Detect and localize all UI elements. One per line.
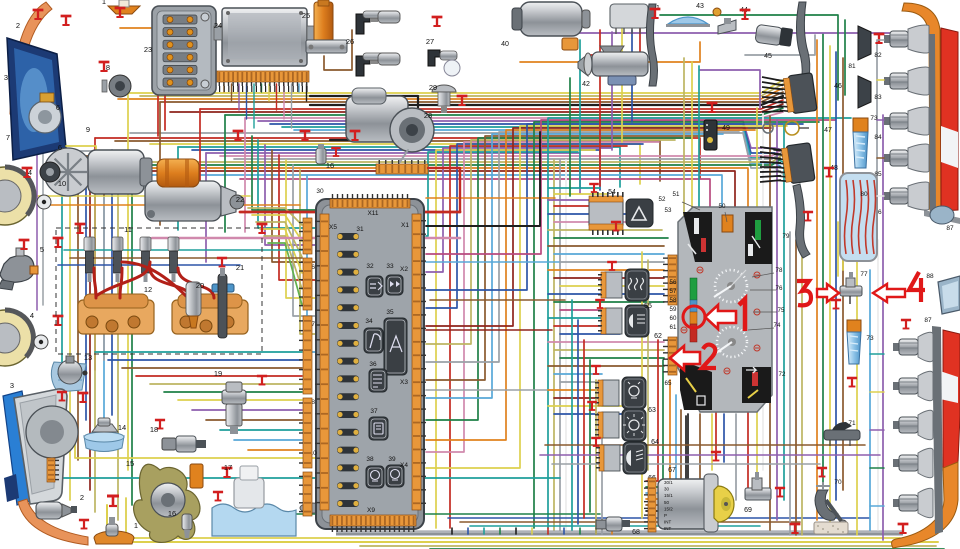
headlamp unit 3 (bottom-left) [3,389,78,505]
wire switch column vertical 5 [601,420,603,534]
svg-text:32: 32 [366,263,374,270]
ground gnd 16u [331,148,341,156]
side repeater 73 left lens [847,320,861,364]
tail lamp housing top-right red block [941,28,958,211]
wire main harness A9 [258,121,757,148]
starter 22 [145,159,244,221]
ground gnd near horn8 [99,62,110,71]
wire far-left vertical 2 [77,168,79,460]
wire left gray vertical [42,128,44,305]
svg-text:30: 30 [664,487,670,492]
wire bundle-to-panel rung 15 [554,301,664,303]
svg-text:6: 6 [58,143,62,152]
horn 4 upper [0,167,51,225]
wire left drop 8 [117,162,119,520]
wire central bundle v11 [426,130,755,440]
connector of unit 24 [217,71,309,86]
annotation digit 2 [702,345,716,368]
indicator bars in 53 [688,218,706,254]
svg-text:87: 87 [924,317,932,324]
wire main harness B8 [118,156,781,162]
ground gnd 21 [217,258,227,267]
svg-text:10: 10 [58,179,66,188]
wire far-left vertical 4 [94,184,96,512]
wire ignition yellow feeder [641,252,643,518]
bulb 82 [884,25,929,53]
svg-text:71: 71 [848,420,856,427]
wire ECU drop 11 [306,84,308,101]
light switch 64 connector [595,412,619,438]
instrument cluster 51 panel [678,207,772,412]
wire bundle-to-panel rung 13 [560,285,664,287]
wire central bundle v12 [426,128,771,326]
wire ECU drop 5 [261,84,263,92]
tail lamp bottom-right red block [943,330,960,470]
wire harness A-48 3 [757,163,783,168]
wire ECU drop 0 [223,84,225,92]
wire main harness A13 [130,133,757,168]
wire left drop 9 [131,165,133,505]
relay 36 [369,369,387,392]
svg-text:X9: X9 [367,507,375,514]
wire central bundle v15 [534,122,819,528]
wire headlamp TL leads2 [66,151,100,190]
wire left drop 2 [199,109,201,210]
wire bundle-to-panel rung 25 [560,381,602,383]
wire main harness B12 [104,175,722,215]
ground gnd near 28 [457,96,468,105]
outer connector strip 1 [299,258,312,310]
wire left horizontal o [38,204,300,206]
wire fusebox feed orange [120,27,152,29]
svg-text:77: 77 [860,271,868,278]
wire top G loop [660,15,838,100]
wire starter main cable [240,211,460,214]
wire bulb stub top 1 [877,79,884,81]
wire bottom yellow long [107,505,938,542]
wire mid meander black [426,132,540,226]
wire main harness A3 [160,92,783,102]
svg-text:X4: X4 [400,462,408,469]
svg-text:60: 60 [670,315,677,322]
gauge bar blue 58 [690,300,697,312]
ground gnd top 44 [740,10,751,19]
svg-text:5: 5 [40,245,44,254]
svg-text:2: 2 [16,21,20,30]
svg-text:15/2: 15/2 [664,506,673,511]
wire harness A-48 0 [757,148,783,150]
fan resistor [190,464,203,488]
ground gnd motor2 [79,520,89,529]
wire ignition feeder 5 [646,416,686,511]
svg-text:62: 62 [654,333,662,340]
ground gnd 14 [58,420,68,429]
svg-text:65: 65 [665,380,672,387]
wire right vertical c0 [856,260,858,535]
relay 39 (headlight hi) [386,465,404,487]
wire far-left vertical 5 [103,192,105,360]
cluster corner box 72 [742,367,771,403]
wire left sensor band 8 [206,419,302,421]
wire harness A-48 4 [757,168,783,174]
wire right vertical d2 [801,250,803,535]
wire right vertical d0 [789,232,791,535]
column switch connector 48 [773,143,815,186]
horn 42 [578,46,648,85]
wire main harness B0 [95,138,700,178]
connector 49 [704,120,717,150]
ground gnd stalk [803,212,813,221]
wire top-center vertical 4 [621,16,623,142]
svg-text:30/1: 30/1 [664,480,673,485]
svg-text:6: 6 [56,103,60,112]
wire right vertical b3 [835,52,837,500]
ground gnd 73b2 [847,378,857,387]
ground gnd top 41 [650,9,661,18]
wire ignition feeder 3 [646,380,670,499]
wire left drop 6 [177,147,179,230]
ground gnd fan [222,468,233,477]
wire bulb stub top 4 [877,195,884,197]
annotation arrow 4 [873,284,905,302]
wire main harness A7 [225,108,783,115]
wire bundle-to-panel rung 27 [554,397,602,399]
wire right vertical a0 [756,108,758,475]
wire HT wire 4 [178,268,214,298]
sensor 21 [212,268,234,338]
side repeater 73 (second) [736,92,741,152]
svg-text:X2: X2 [400,266,408,273]
wire central bundle v8 [426,136,707,380]
wire far-left vertical 1 [69,160,71,500]
wire X11 feed vertical 2 [272,150,315,262]
wire switch column vertical 2 [583,340,585,518]
wire mid-low gray long [552,463,820,465]
svg-text:INT: INT [664,520,672,525]
wire left horizontal t [64,249,302,251]
wire main harness B2 [150,144,640,184]
wire bundle-to-panel rung 4 [548,213,640,215]
X11 right strip [412,214,426,510]
wire central bundle v2 [426,148,611,272]
wire central bundle v5 [426,142,659,452]
wire bundle-to-panel rung 16 [560,309,608,311]
indicator bars in 72 [746,367,758,398]
wire fusebox red pair2 [164,96,166,130]
relay 37 [369,417,388,440]
svg-text:81: 81 [848,63,856,70]
wire top R [590,28,640,55]
wire X11 left fan 2 [256,222,302,257]
svg-text:56: 56 [670,279,677,286]
horn 8 [102,75,131,97]
cluster leader lines [682,202,777,330]
wire top-center vertical 1 [579,40,581,188]
wire X9 bottom stub 8 [579,528,581,534]
wire main harness B3 [178,147,620,187]
ground gnd ecu b [300,131,311,140]
svg-text:4: 4 [30,311,34,320]
wire right vertical c3 [876,40,878,225]
bulb 83 [884,67,929,95]
wire bundle-to-panel rung 14 [548,293,664,295]
relay 34 (wiper) [364,328,383,353]
wire bundle-to-panel rung 26 [548,389,602,391]
wire HT wire 2 [120,268,122,298]
wire central bundle v0 [426,152,578,236]
svg-text:24: 24 [214,21,222,30]
rear-defrost switch 55 switch [625,269,649,301]
wire main harness B1 [115,141,660,181]
car body crescent bottom-left [18,499,88,545]
wire left drop 3 [224,115,226,232]
wire left drop 7 [205,153,207,262]
annotation arrow 3 [817,284,839,302]
wire main harness A4 [310,96,783,105]
ground gnd plugs left [75,224,86,233]
ground gnd 13 [78,393,89,402]
fan 15 [134,464,200,542]
svg-text:20: 20 [196,281,204,290]
wire main harness B10 [146,168,748,208]
wire right vertical c4 [877,240,879,530]
svg-text:13: 13 [84,353,92,362]
wire far-left vertical 3 [85,176,87,420]
gauge bar orange 60 [690,312,697,324]
ground gnd 73b [831,300,841,309]
wire bottom green long [238,514,600,530]
wire bundle-to-panel rung 7 [554,237,668,239]
wire bulb stub top 2 [877,119,884,121]
svg-text:38: 38 [366,456,374,463]
wire main harness A8 [245,112,783,118]
annotation digit 3 [797,281,811,305]
annotation arrow 2 [670,346,700,370]
svg-text:52: 52 [659,196,666,203]
handbrake switch 70 [814,482,848,534]
wire ECU drop 2 [238,84,240,110]
switch 69 [745,472,771,500]
wire bottom green long2 [430,548,944,549]
ground gnd top a [33,10,44,19]
X11 top connector strip [330,194,410,208]
bulb bottom 2 [893,410,933,439]
wire fusebox red pair [157,96,159,136]
motor 29 [346,88,434,152]
svg-text:67: 67 [668,467,676,474]
wire top-center vertical 7 [691,62,693,226]
wire right vertical a4 [783,124,785,500]
wire cluster down vertical 3 [735,414,737,500]
relay 33 [386,275,403,295]
wire main harness A1 [140,84,783,96]
wire main harness A10 [270,124,757,153]
wire bundle-to-panel rung 1 [554,193,607,195]
bulb bottom 3 [893,448,933,477]
alternator 10 [40,148,152,196]
wire switch column vertical 4 [595,380,597,534]
wire left drop 0 [127,93,129,470]
ground gnd 17 [213,492,223,501]
wire top-center vertical 6 [683,58,685,232]
rear-defrost switch 55 connector [598,272,622,298]
wire switch column vertical 1 [577,320,579,524]
interior light switch 63 connector [595,380,619,406]
wire X11 left fan 4 [264,236,302,289]
wire X11 feed vertical 0 [258,140,315,228]
wire main harness B5 [206,153,580,193]
wire bulb stub 4 [870,505,884,507]
ground gnd tail bottom top [901,320,911,329]
svg-text:79: 79 [783,233,790,240]
wire right vertical b4 [842,58,844,490]
svg-text:46: 46 [834,83,842,90]
ground gnd horn5 [19,240,30,249]
wire central bundle v6 [426,140,675,344]
wire right vertical a1 [762,112,764,470]
X11 fuse row [337,233,359,240]
svg-text:15/1: 15/1 [664,493,673,498]
cluster screw 1 [754,309,760,315]
wire mid meander brown [430,299,565,301]
wire HT wire 1 [94,268,96,298]
tail lamp backing edge [924,210,960,224]
relay 35 (big) [384,318,407,375]
svg-text:INT: INT [664,526,672,531]
tail lamp bottom spine [932,326,943,534]
wire bottom brown [460,521,800,523]
svg-text:80: 80 [860,191,868,198]
valve 77 [840,272,862,304]
side repeater 73 (right) [853,118,868,168]
bulb 85 [884,144,929,172]
wire bulb stub top 0 [877,39,884,41]
ground gnd 18 [155,420,165,429]
svg-text:X5: X5 [329,224,337,231]
switch 45 [755,24,793,46]
svg-text:2: 2 [80,493,84,502]
svg-text:17: 17 [224,463,232,472]
svg-text:19: 19 [214,369,222,378]
speaker (top right) [930,206,954,224]
wire central bundle v4 [426,144,643,308]
cluster connector upper [663,255,677,305]
wire harness A-48 1 [757,153,783,156]
wire right vertical a3 [776,120,778,520]
valve 20 [186,282,201,328]
wire top-center vertical 2 [599,30,601,186]
wire headlamp TL leads3 [63,156,104,195]
wire bulb stub 3 [870,467,884,469]
rear fog switch 66 connector [596,445,620,471]
relay 32 (turn/hazard) [366,276,383,297]
wire X9 bottom stub 5 [531,528,533,534]
wire X11 feed vertical 4 [286,160,315,298]
wire HT wire cross a [122,262,186,296]
wire left horizontal br [70,257,302,259]
wire central bundle v14 [426,124,803,290]
dome lamp 43 [666,17,710,27]
wire starter cable drop [428,168,460,212]
wire central bundle v3 [450,146,627,528]
sensor 18 [162,436,206,452]
ground gnd coil [432,17,443,26]
wire top-center vertical 3 [611,32,613,150]
svg-text:29: 29 [429,83,437,92]
svg-text:3: 3 [4,73,8,82]
svg-text:36: 36 [369,361,377,368]
wire left sensor band 2 [122,367,302,369]
svg-text:33: 33 [386,263,394,270]
wire defogger feed yellow [837,222,839,276]
relay 41 [610,4,648,34]
svg-text:21: 21 [236,263,244,272]
wire X11 feed vertical 1 [265,145,315,245]
wire bundle-to-panel rung 19 [560,333,620,335]
connector 46 black wire fan [762,77,783,112]
wire main harness B11 [90,171,735,211]
ground gnd tail bottom [898,524,909,533]
svg-text:7: 7 [6,133,10,142]
svg-text:28: 28 [424,111,432,120]
wire ECU drop 4 [253,84,255,128]
wire HT wire cross b [96,262,150,296]
wire left horizontal y [34,195,250,197]
indicator bars in 65 [686,378,705,405]
ground gnd bus right [790,524,801,533]
wire X11 feed vertical 3 [279,155,315,280]
sensor 27 [428,50,460,76]
ground gnd sw55 [607,262,617,270]
wire X11 left fan 5 [268,243,302,305]
svg-text:P: P [664,513,667,518]
wire bottom teal2 [470,525,760,527]
wire bundle-to-panel rung 18 [554,325,614,327]
svg-text:3: 3 [10,381,14,390]
svg-text:14: 14 [118,423,126,432]
svg-text:78: 78 [776,267,783,274]
valve 16 bottom [182,514,192,538]
mirror 88 [938,276,960,314]
svg-text:23: 23 [144,45,152,54]
ground gnd 19 [257,376,267,385]
unit 24 pin ticks [219,86,308,92]
wire ECU drop 6 [268,84,270,101]
svg-text:74: 74 [774,322,781,329]
wire bottom teal [62,477,560,479]
gauge bar red 61 [690,324,697,342]
wire mid meander orange [426,197,555,199]
wire left sensor band 7 [192,409,302,411]
wire switch column vertical 3 [589,360,591,512]
ignition module 12b [172,294,248,334]
wire left sensor band 11 [248,449,302,451]
ground gnd top c [115,8,126,17]
tail lamp housing top-right orange band [902,3,941,210]
svg-text:11: 11 [124,225,132,234]
sensor 28 [432,85,456,113]
wire top G2 [844,20,846,95]
ground gnd 54 [589,184,599,192]
wire top-center vertical 0 [569,78,571,196]
ground gnd 49 [707,103,718,112]
ground gnd col switch [611,222,621,231]
wire X11 feed vertical 5 [293,165,315,316]
hazard switch 54 [626,199,653,227]
wire bundle-to-panel rung 5 [554,221,648,223]
wire bundle-to-panel rung 24 [554,373,602,375]
wire cluster down vertical 0 [699,414,701,478]
